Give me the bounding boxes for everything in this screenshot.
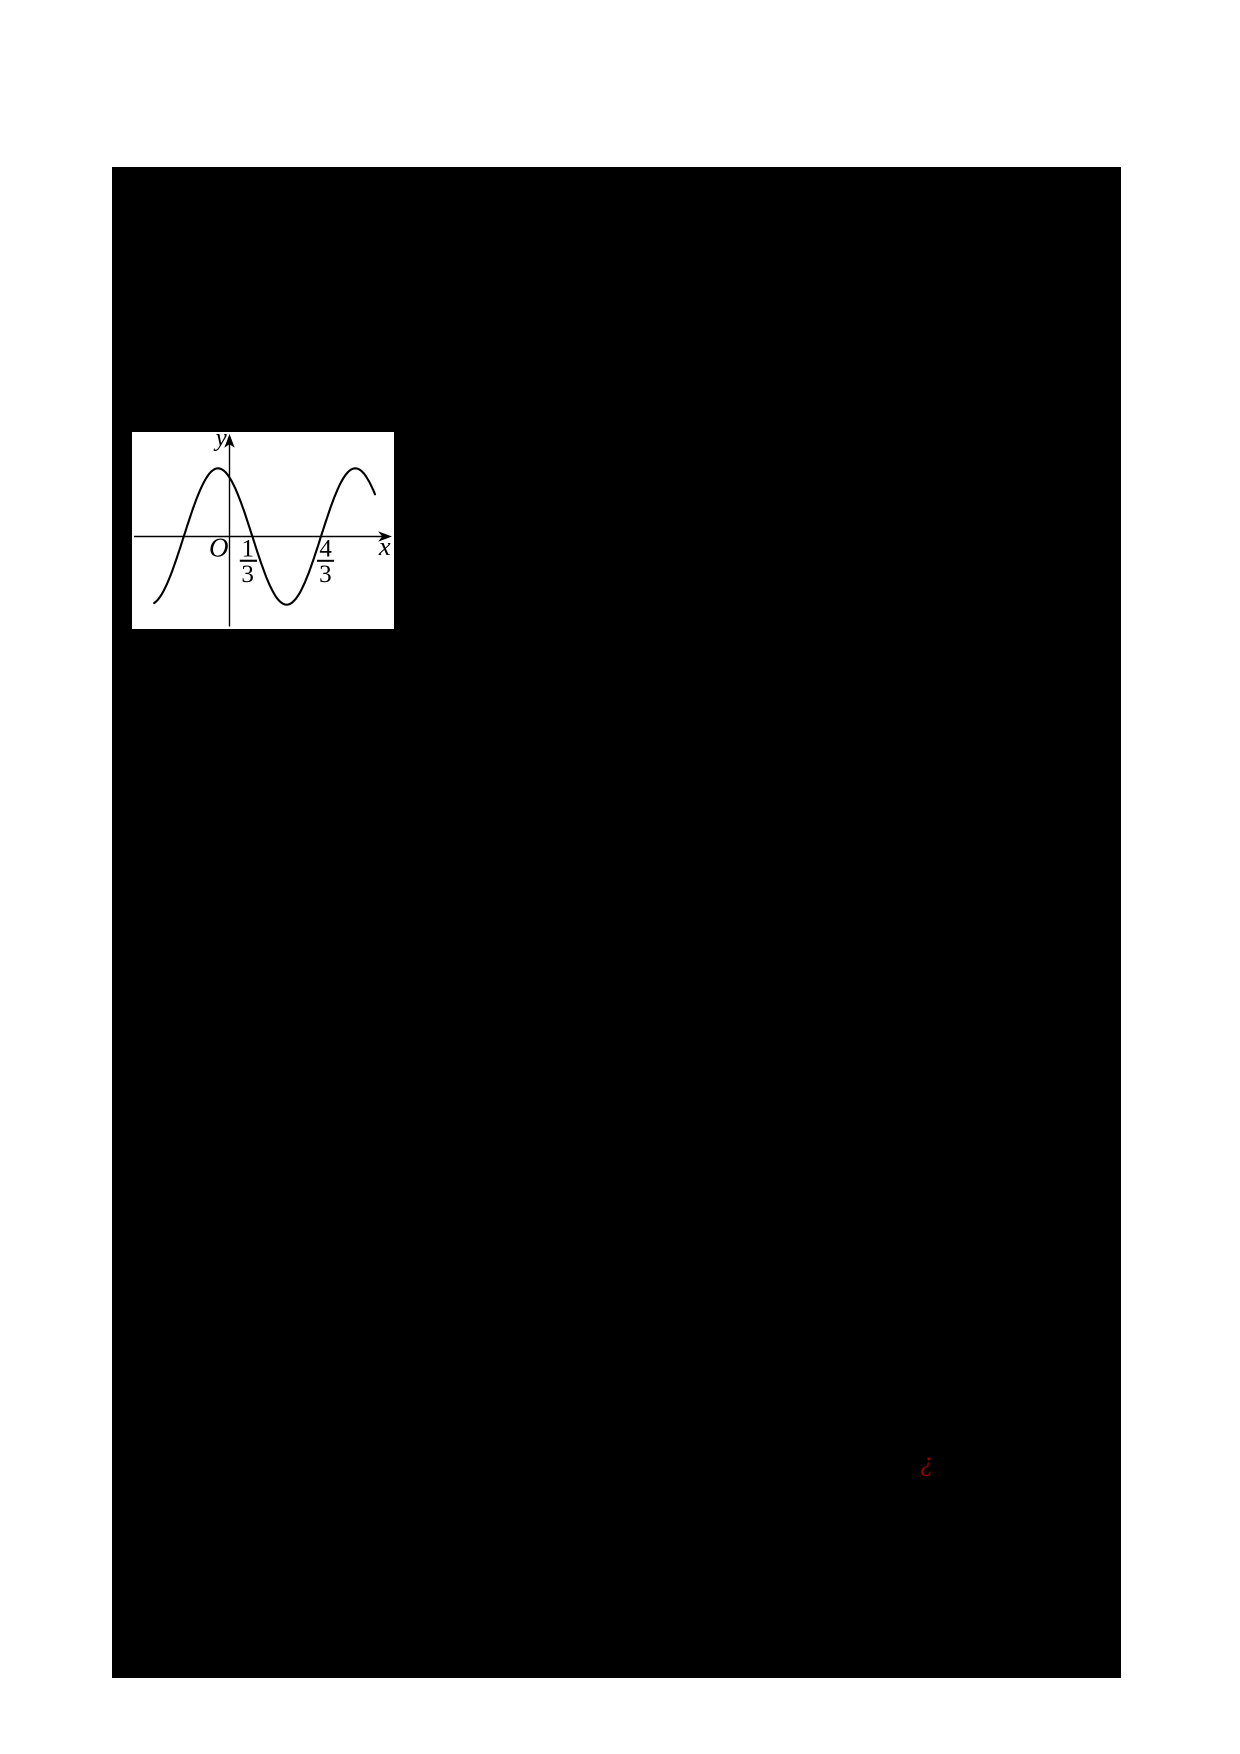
svg-text:O: O [209,533,229,563]
svg-text:3: 3 [241,561,254,588]
svg-text:y: y [213,432,228,452]
svg-text:4: 4 [319,535,332,562]
svg-text:3: 3 [319,561,332,588]
svg-text:x: x [378,531,391,561]
svg-text:1: 1 [241,535,254,562]
